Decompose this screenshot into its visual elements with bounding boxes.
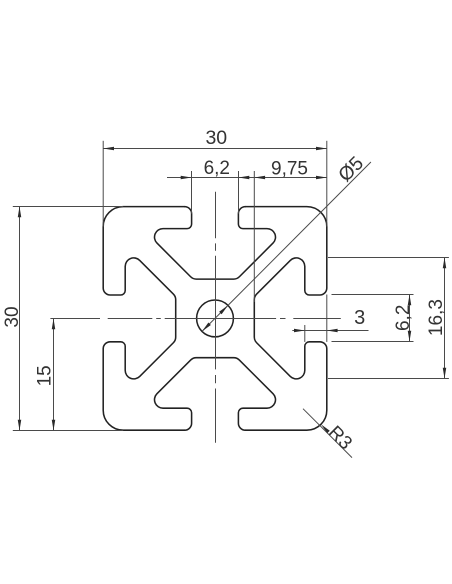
svg-text:30: 30 <box>205 127 227 149</box>
center hole Ø5 <box>197 300 234 337</box>
corner bottom-left <box>103 349 184 430</box>
corner top-right <box>245 207 326 288</box>
dim 3 line <box>292 330 368 332</box>
dia 5 leader line <box>228 162 371 305</box>
arrows 3 (outside) <box>294 329 305 333</box>
svg-text:3: 3 <box>354 307 365 329</box>
corner bottom-right R3 <box>245 349 326 430</box>
arrows 6,2 top (outside) <box>181 176 192 180</box>
arrows 6,2 right <box>408 295 412 306</box>
right T-slot cavity <box>254 258 326 379</box>
dim 30 top line <box>103 148 327 150</box>
left T-slot cavity <box>103 258 176 379</box>
dim 9,75 extension line (right cavity plateau) <box>253 171 255 302</box>
svg-text:6,2: 6,2 <box>393 305 414 331</box>
R3 leader line <box>303 409 352 458</box>
dim 3 extension lines <box>304 325 306 342</box>
dim 30 left line <box>19 207 21 431</box>
dim 6,2 right extension lines <box>332 294 414 296</box>
corner top-left <box>103 207 184 288</box>
arrows dia 5 <box>219 305 228 314</box>
horizontal centerline <box>50 318 340 320</box>
dim 6,2 top line <box>167 177 239 179</box>
svg-text:16,3: 16,3 <box>426 299 447 336</box>
top T-slot cavity <box>155 207 276 280</box>
arrows 30 top <box>103 147 114 151</box>
dim 9,75 line <box>239 177 327 179</box>
arrows 30 left <box>18 207 22 218</box>
dim 6,2 top extension lines <box>191 171 193 214</box>
bottom T-slot cavity <box>155 358 276 431</box>
svg-text:9,75: 9,75 <box>271 158 308 179</box>
svg-text:6,2: 6,2 <box>204 158 230 179</box>
dim 30 left extension lines <box>13 206 123 208</box>
dim 30 top extension lines <box>102 141 104 227</box>
dim 15 line <box>53 319 55 431</box>
dia 5 diameter segment <box>202 305 228 331</box>
arrows 16,3 <box>443 258 447 269</box>
profile 30x30 outline <box>103 207 327 431</box>
svg-text:15: 15 <box>34 365 55 386</box>
arrows 9,75 <box>254 176 265 180</box>
arrow R3 <box>321 424 330 433</box>
arrows 15 <box>52 319 56 330</box>
dim 16,3 extension lines <box>328 257 449 259</box>
svg-text:30: 30 <box>2 306 23 327</box>
dim 6,2 right line <box>409 295 411 342</box>
dim 16,3 line <box>444 258 446 379</box>
vertical centerline <box>215 192 217 443</box>
